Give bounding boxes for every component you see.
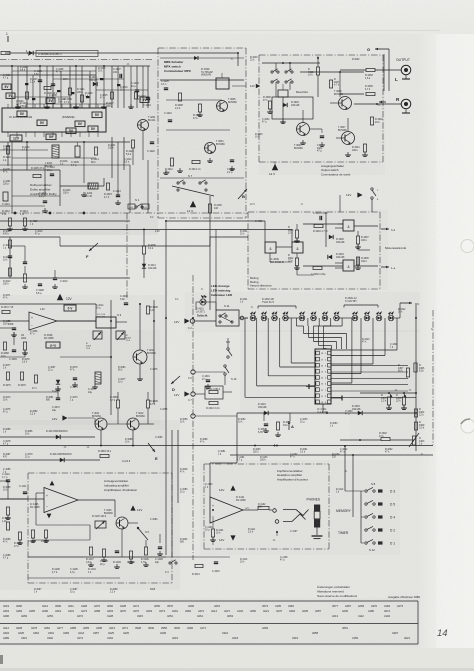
wire dolby h1 [0, 65, 150, 67]
wire motor h275 [297, 274, 314, 276]
capacitor C4069 [9, 350, 17, 361]
wire ic bottom [322, 404, 324, 413]
wire anz h540 [34, 539, 90, 541]
wire mesh lowv1 [11, 142, 13, 213]
thermistor R4303 [409, 433, 425, 447]
wire 12v stub [274, 162, 276, 164]
resistor R4069 [21, 334, 27, 350]
label Anzeigeverstaerker [104, 479, 137, 492]
label D4309-12 [344, 297, 378, 308]
resistor R4605 [288, 254, 299, 266]
switch S10 [224, 365, 237, 385]
resistor left stub [1, 51, 10, 54]
wire led in [195, 320, 216, 322]
wire mid h300 [0, 303, 96, 305]
wire bottom stub [28, 577, 120, 579]
wire mesh lowv2 [44, 165, 46, 196]
wire mesh h71 [12, 70, 96, 72]
capacitor C4012 [23, 262, 27, 264]
resistor R4068 [1, 342, 9, 358]
node D [171, 376, 180, 392]
resistor R4051 [276, 421, 291, 430]
capacitor C4011 [8, 256, 12, 258]
resistor column a [3, 372, 38, 390]
resistor R4609b [263, 96, 272, 109]
wire motor v3582 [358, 250, 370, 265]
wire frame right [432, 310, 434, 445]
power 12V motor [346, 192, 363, 197]
wire c7 out [195, 392, 232, 394]
capacitor C4052 [258, 424, 268, 434]
wire out v303 [302, 110, 304, 123]
resistor R4202 [3, 146, 11, 162]
wire L [340, 69, 401, 71]
wire [147, 66, 149, 108]
resistor R4611 [193, 104, 202, 120]
label Motorelektronik [385, 246, 407, 250]
wire t4014 v [139, 364, 141, 376]
wire mesh low2 [12, 157, 96, 159]
node tick 1 [6, 32, 8, 42]
wire motor h247 [276, 246, 292, 248]
decorative scan grain [0, 0, 1, 1]
resistor R4603 [288, 226, 299, 238]
wire long h455 [230, 454, 433, 456]
5V box ic3 [75, 121, 85, 127]
wire led stair right [331, 318, 397, 383]
resistor R4101 [211, 529, 224, 537]
ground t4014 [137, 376, 143, 380]
wire footer line1 [0, 600, 418, 602]
capacitor C4210 [47, 166, 55, 176]
wire [136, 66, 138, 108]
label MPX [164, 60, 191, 73]
capacitor C4209el [71, 142, 80, 167]
box S11 [216, 310, 239, 326]
label IC4606 [270, 258, 284, 264]
box r4314 [205, 386, 223, 399]
wire bus 213 [0, 212, 248, 214]
12V box [10, 135, 22, 141]
transistor T4604 [205, 140, 226, 154]
wire out h104 [354, 103, 383, 105]
power 12V t4011 [52, 415, 94, 421]
wire mid h418 [0, 436, 95, 438]
diode D4201 [89, 76, 98, 86]
label 12V right [250, 84, 260, 88]
transistor T4606 [294, 123, 310, 150]
wire ic pin cap2 [331, 396, 342, 401]
wire mesh v61 [60, 71, 62, 108]
ic IC4301 UAA180 [315, 349, 331, 414]
diode D4216 [258, 403, 268, 415]
capacitor C4208 [49, 84, 57, 97]
label A node [288, 421, 294, 430]
wire out base1 [330, 102, 338, 104]
wire sw up [345, 446, 361, 517]
resistor column b [2, 507, 49, 548]
label Reed [296, 90, 309, 94]
wire motor in1 [166, 221, 265, 242]
capacitor C4008 [120, 295, 128, 305]
5V box ic2 [37, 120, 47, 126]
5V box ic1 [17, 111, 27, 117]
0V box [64, 305, 76, 311]
switch out1 [271, 69, 293, 73]
ground t4606 [300, 140, 306, 144]
node C6 [188, 370, 225, 380]
label cK out [377, 101, 386, 107]
switch S6 [137, 527, 149, 540]
wire motor out2 [354, 265, 378, 267]
resistor R4604 [313, 224, 327, 233]
capacitor C4072 [52, 398, 60, 412]
capacitor C4209b [161, 80, 169, 90]
wire frame dash top [0, 59, 152, 61]
wire dolby low v1 [59, 170, 61, 206]
label Dolbyverstaerker [30, 183, 57, 196]
wire mesh low4 [12, 195, 60, 197]
diode D4071 [52, 380, 60, 393]
capacitor C4080 [88, 372, 101, 394]
label MEMORY [336, 509, 352, 513]
ground r4308 [401, 405, 407, 409]
capacitor plates texture [25, 78, 120, 100]
5V box d [140, 97, 149, 102]
wire motor top [326, 212, 343, 224]
node C8 [191, 414, 237, 418]
ic IC4609 [201, 68, 246, 89]
resistor R4102 [258, 504, 269, 510]
jack body [312, 505, 323, 539]
connector motor 2 [381, 266, 396, 270]
wire motor h266 [303, 265, 343, 267]
label S11 [224, 304, 230, 308]
capacitor C4206 [34, 70, 42, 82]
wire long v416 [415, 303, 417, 451]
label VT2 [245, 508, 250, 510]
wire mesh lowv3 [83, 142, 85, 183]
label cK r2 [404, 388, 412, 398]
label LED-Anzeige [211, 284, 233, 297]
resistor R4607 [356, 236, 369, 244]
wire mesh h90 [96, 89, 148, 91]
capacitor C4110 [2, 473, 10, 482]
wire led stair left [245, 318, 315, 397]
wire motor in2 [291, 230, 293, 243]
grounds anz [88, 562, 149, 568]
wire G v [388, 49, 390, 91]
label S12 [369, 548, 375, 552]
wire led out [239, 316, 248, 320]
wire dolby low h2 [60, 185, 104, 187]
wire R conn [383, 103, 401, 105]
transistor T4607 [338, 126, 355, 145]
wire motor v326 [325, 218, 327, 247]
resistor R4302 [379, 432, 390, 441]
wire left v 240 [9, 237, 11, 278]
wire mesh v143 [142, 66, 144, 108]
wire t stubs [101, 430, 133, 446]
capacitor C4220 [147, 142, 155, 153]
wire mpx top inner [160, 57, 244, 59]
wire opamp out [57, 320, 96, 322]
wire out v318 [317, 58, 319, 97]
resistor R4216 [106, 92, 114, 108]
capacitor C4002 [317, 136, 324, 153]
wire long h445 [0, 445, 433, 447]
wire [95, 66, 97, 108]
wire dolby low h1 [0, 169, 60, 171]
resistor R4037 [329, 78, 340, 88]
resistor R4306 [414, 363, 425, 373]
ground mid1 [275, 432, 281, 436]
resistor R4613 [189, 160, 201, 171]
resistor R4208 [44, 86, 58, 95]
resistor R4304 [414, 408, 425, 417]
wire ic outputs [331, 366, 416, 398]
connector R [401, 99, 411, 113]
wire ic pin cap1 [306, 384, 315, 389]
transistor T4011 [92, 412, 107, 430]
resistor R4214 [91, 147, 99, 164]
resistor R4011 [8, 268, 11, 276]
switch S7 [172, 174, 214, 196]
label cK top [126, 62, 130, 66]
wire [11, 66, 13, 108]
wire h413 [237, 412, 416, 414]
resistor R4010 [8, 240, 11, 248]
wire mesh lowv6 [147, 160, 149, 213]
wire anz h557 [28, 556, 166, 558]
diode D4014 [50, 453, 72, 462]
5V box ic4 [92, 112, 102, 118]
jack curve [283, 510, 309, 522]
wire out v283 [282, 97, 284, 123]
5V box f [66, 128, 76, 134]
wire box v384 [383, 54, 385, 91]
table part numbers row2 [3, 626, 410, 640]
inductor L4201 [45, 145, 59, 168]
wire extra mesh [0, 195, 340, 557]
wire motor v358 [357, 231, 359, 250]
wire mesh low3 [0, 164, 130, 166]
diode D4603 [283, 101, 300, 107]
transistor T4608 [334, 90, 352, 110]
connector L [401, 65, 411, 79]
diode D4604 [328, 253, 345, 259]
wire v mid1 [26, 142, 28, 170]
wire mesh h97 [12, 96, 70, 98]
label C2 [188, 327, 192, 330]
ground symbols extra [5, 104, 407, 563]
switch out2 [271, 79, 293, 83]
5V box e [46, 134, 56, 140]
wire hp fb [212, 517, 214, 545]
contact hp2 [275, 520, 279, 524]
label cK hp [272, 531, 278, 542]
op-amp IC4205 box [2, 108, 106, 132]
wire led brackets mid [296, 318, 346, 349]
wire out base3 [336, 118, 348, 138]
capacitor C4216 [164, 112, 172, 122]
node b1 [14, 212, 16, 214]
box MPX [158, 48, 246, 218]
wire anz out [78, 499, 115, 501]
capacitor C4217 [131, 82, 139, 92]
gate U4 [343, 260, 354, 271]
wire motor v2972 [296, 253, 298, 275]
diode D4605b [329, 235, 345, 244]
wire out v340 [339, 72, 341, 97]
wire long v111 [110, 300, 112, 415]
wire mesh v18 [17, 66, 19, 108]
resistor R4083 [98, 450, 112, 458]
wire mesh v131 [130, 66, 132, 108]
switch motor in [371, 188, 379, 212]
resistor R4308 [396, 394, 406, 405]
wire v mid2 [111, 137, 113, 178]
diode D4315 [352, 405, 362, 415]
wire v144 [143, 230, 145, 279]
transistor T4012 [127, 412, 145, 430]
wire mesh low5 [0, 205, 45, 207]
contact hp1 [273, 509, 277, 513]
wire relay v1 [276, 63, 290, 72]
capacitor C4219 [143, 98, 151, 107]
diode D4013 [46, 430, 68, 439]
resistor R4305b [414, 421, 425, 430]
node b3 [83, 212, 85, 214]
resistor R4039 [365, 85, 375, 96]
wire anz in [0, 498, 44, 500]
resistor R4038 [365, 68, 375, 79]
corner mark [0, 655, 3, 664]
wire mesh v47 [46, 66, 48, 108]
node b2 [49, 212, 51, 214]
wire long v127 [126, 213, 128, 300]
box output switch [259, 55, 383, 162]
power 12V hp2 [219, 535, 236, 542]
resistor R4080 [110, 396, 120, 408]
box headphone [204, 464, 329, 549]
wire top bus [5, 52, 238, 54]
wire dolby low v2 [103, 178, 105, 186]
wire v left1 [7, 142, 9, 166]
label Ausgabe [388, 595, 420, 599]
wire [52, 66, 54, 108]
power 12V hp1 [219, 485, 236, 492]
resistor R4072 [1, 306, 13, 314]
wire long v193 [192, 275, 194, 560]
op-amp IC4008 [29, 312, 57, 340]
resistor R4238 [175, 93, 183, 110]
trimmer R4125 [92, 515, 107, 529]
wire mesh v104 [103, 66, 105, 108]
wire rd v [133, 131, 143, 165]
node F [86, 243, 98, 259]
wire mesh v118 [117, 66, 119, 108]
resistor R4212 [2, 210, 12, 226]
box motor [248, 212, 380, 289]
capacitor C3208 [36, 284, 44, 295]
0V box2 [46, 342, 60, 348]
resistor R4205b [381, 394, 391, 405]
capacitor C4207 [113, 68, 122, 78]
resistor R4209 [64, 88, 72, 104]
box relay [272, 97, 313, 119]
wire dolby h2 [0, 74, 96, 76]
op-amp IC4101 [210, 496, 246, 523]
label cK m1 [63, 445, 67, 449]
wire hp out [243, 509, 272, 511]
wire left h246 [10, 245, 25, 247]
resistor R4041 [352, 144, 367, 152]
inductor L4202 [85, 183, 98, 198]
wire long v172 [171, 430, 173, 557]
resistor R4006 [142, 244, 156, 254]
wire long 278 [0, 277, 130, 279]
gate U1 [265, 242, 276, 253]
capacitor C4301 [202, 375, 210, 382]
wire mid h460 [0, 459, 100, 461]
parts row anz [86, 547, 163, 566]
capacitor C4218 [227, 160, 235, 174]
capacitor C4068 [8, 320, 16, 330]
node B [238, 189, 247, 199]
label Muting [250, 276, 272, 288]
label Kopfhoerer [277, 469, 308, 481]
label cK m2 [86, 445, 90, 449]
resistor R4206 [20, 92, 29, 108]
parts bottom mid [165, 557, 230, 576]
label cK r1 [390, 388, 398, 398]
label S3 [117, 313, 122, 317]
led row D4302-D4312 [245, 312, 400, 321]
labels below anz [52, 568, 96, 574]
wire bus 237 [0, 236, 60, 238]
diode D4605 [26, 50, 33, 56]
resistor R4608 [308, 67, 320, 77]
resistor R4008b [146, 306, 158, 314]
trimmer R4003 [86, 331, 102, 350]
wire motor v297 [296, 224, 298, 242]
wire [69, 66, 71, 108]
resistor R4307 [398, 364, 410, 377]
wire relay v2 [276, 82, 290, 97]
wire out h72 [300, 71, 364, 73]
wire out base2 [310, 129, 322, 133]
5V box c [46, 98, 55, 103]
label S8 [371, 482, 376, 486]
label TIMER [338, 531, 349, 535]
resistor R4606 [356, 257, 369, 265]
label C7 [188, 399, 192, 402]
wire mpx m1 [166, 99, 222, 101]
wire mesh h79 [53, 78, 124, 80]
wire top bus corner [237, 53, 239, 66]
table part numbers row1 [3, 604, 403, 618]
5V box a [2, 84, 11, 89]
wire out h94 [340, 93, 364, 95]
capacitor C3208b [52, 270, 58, 288]
capacitor C4212el [2, 192, 10, 206]
resistor R4215 [104, 183, 112, 199]
resistor R4135 [208, 204, 222, 213]
wire h440 [340, 439, 414, 441]
power 12V led [174, 318, 195, 324]
wire long v210 [209, 196, 211, 310]
